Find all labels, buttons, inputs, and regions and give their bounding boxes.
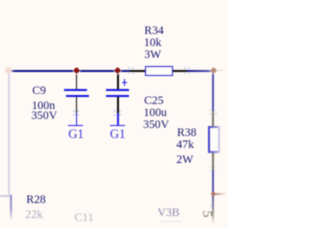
label C11 (faded): [75, 212, 94, 224]
wire: vertical right net lower (y 169.5-194): [212, 170, 214, 195]
label R34 power 3W: [144, 49, 161, 61]
wire: R38 top pin (gray, y 111-126.5): [212, 111, 214, 127]
vertex marks on wire at x=187,y=70: [184, 67, 186, 69]
vertex marks on R38 top pin: [209, 110, 211, 112]
ground G1 (C25) bar: [110, 125, 125, 127]
label R38 power 2W: [176, 154, 193, 166]
wire: R38 bottom pin (gray, y 152.5-169.5): [212, 153, 214, 170]
capacitor C25 bottom plate: [106, 95, 130, 97]
junction node D (bottom right, faded): [210, 191, 216, 197]
vertex marks on R38 bottom pin: [209, 167, 211, 169]
ground G1 (C9) bar: [68, 125, 83, 127]
faint mark near sheet pin 5: [210, 205, 212, 207]
label C9 voltage 350V: [31, 110, 57, 122]
label C25 value 100u: [144, 107, 167, 119]
capacitor C25 bottom pin (black): [117, 97, 119, 113]
ground G1 (C25) pin: [117, 113, 119, 125]
label C25 voltage 350V: [143, 119, 169, 131]
label R38 value 47k: [176, 139, 194, 151]
junction node C (top right, faded): [210, 67, 217, 74]
capacitor C25 top plate: [106, 89, 129, 91]
wire: vertical right net upper (x=213, y 71-111): [212, 71, 214, 111]
wire: faded stub to right edge (x 213-228): [214, 70, 228, 72]
label C25 designator: [144, 95, 163, 107]
capacitor C25 plus sign: [122, 82, 127, 84]
junction node A (C9 to bus): [73, 67, 80, 74]
resistor R34 body: [145, 66, 172, 76]
junction dot left end (faded): [5, 67, 12, 74]
label R28 value 22k (faded): [25, 209, 43, 221]
label C9 designator: [32, 85, 46, 97]
ground G1 (C25) label: [110, 128, 126, 141]
vertex marks on C25 ground wire: [114, 110, 116, 112]
label R28 designator: [26, 194, 45, 206]
wire: horizontal bus to right junction (x 187-213): [187, 70, 213, 72]
capacitor C9 bottom plate: [66, 95, 89, 97]
wire: main horizontal bus segment (navy, x 8-130, y 70.5): [8, 70, 130, 72]
label V3B (faded): [158, 207, 180, 219]
capacitor C9 bottom pin (black): [76, 97, 78, 113]
capacitor C9 top pin (black): [76, 74, 78, 90]
label R34 value 10k: [144, 37, 162, 49]
wire: faint vertical net at left edge (x=8, y 70-196): [8, 70, 10, 197]
ground G1 (C9) pin: [76, 113, 78, 125]
vertex marks on wire at x=130,y=70: [128, 67, 130, 69]
capacitor C25 top pin (black): [117, 74, 119, 90]
junction node B (C25 to bus): [114, 67, 121, 74]
wire: faint horizontal stub bottom-left (y=196): [0, 195, 12, 197]
wire: pin of R34 right (black, x 172.5-187): [173, 70, 188, 72]
faded underline smudge below V3B: [160, 221, 182, 223]
sheet pin number 5 (rotated): [199, 209, 213, 219]
wire: faded stub right of bottom junction: [215, 193, 228, 195]
ground G1 (C9) label: [68, 128, 84, 141]
vertex marks on C9 ground wire: [73, 110, 75, 112]
capacitor C9 top plate: [64, 89, 88, 91]
resistor R38 body: [208, 126, 219, 152]
wire: bottom-left vertical to lower edge: [10, 195, 12, 221]
label C9 value 100n: [32, 100, 55, 112]
label R38 designator: [177, 127, 196, 139]
label R34 designator: [144, 25, 163, 37]
wire: vertical right net below junction, fading to bottom: [212, 194, 214, 224]
wire: pin of R34 left (black, x 130-145.5): [130, 70, 146, 72]
